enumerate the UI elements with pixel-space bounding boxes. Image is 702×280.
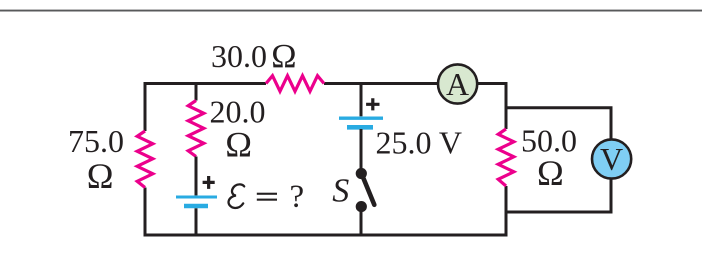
svg-text:S: S: [332, 173, 349, 210]
wire: top wire right segment (ammeter to top-right corner): [478, 82, 506, 85]
svg-text:?: ?: [290, 179, 305, 215]
resistor R1 75.0 ohm (left branch): [137, 131, 153, 188]
battery B1 (emf) short plate: [184, 204, 208, 209]
svg-text:30.0Ω: 30.0Ω: [211, 38, 297, 75]
resistor R4 50.0 ohm (right branch): [498, 129, 514, 186]
switch S lever: [362, 176, 374, 205]
wire: top wire middle segment (30ohm to ammeter): [324, 82, 437, 85]
wire: right branch lower segment: [505, 186, 508, 237]
wire: voltmeter loop top wire: [505, 108, 612, 139]
wire: bottom wire: [145, 234, 506, 237]
svg-text:Ω: Ω: [87, 156, 114, 196]
wire: right branch upper segment: [505, 82, 508, 129]
wire: second branch upper segment (20ohm branch top): [195, 82, 198, 101]
label equals sign: [257, 193, 277, 195]
voltmeter V1 circle: [592, 139, 631, 178]
svg-text:25.0 V: 25.0 V: [376, 125, 463, 161]
wire: voltmeter loop bottom wire: [505, 179, 612, 212]
svg-text:Ω: Ω: [537, 153, 564, 193]
svg-text:75.0: 75.0: [68, 123, 124, 159]
plus sign of battery B2: [366, 98, 379, 110]
wire: middle branch between battery and switch: [360, 129, 363, 169]
label emf script E: [229, 184, 245, 208]
wire: top wire left segment (node between 75ohm and 30ohm): [145, 82, 266, 85]
wire: second branch middle segment (between R2 and battery): [195, 157, 198, 196]
top border rule: [0, 10, 702, 12]
battery B2 25.0V long plate: [339, 116, 383, 119]
svg-text:V: V: [600, 141, 623, 177]
switch S contact dot bottom: [356, 201, 367, 212]
plus sign of battery B1: [203, 176, 215, 189]
wire: left branch lower segment: [144, 188, 147, 237]
svg-text:A: A: [446, 66, 469, 102]
wire: second branch bottom segment: [195, 208, 198, 236]
wire: middle branch top segment (25V branch): [360, 82, 363, 116]
battery B1 (emf) long plate: [176, 196, 217, 199]
svg-text:Ω: Ω: [225, 125, 252, 165]
resistor R2 20.0 ohm (second branch): [188, 101, 204, 157]
wire: left branch upper segment: [144, 82, 147, 131]
ammeter A1 circle: [438, 64, 477, 103]
wire: middle branch bottom segment: [360, 211, 363, 237]
switch S contact dot top: [356, 168, 367, 179]
resistor R3 30.0 ohm (top wire): [266, 76, 324, 92]
battery B2 25.0V short plate: [347, 125, 373, 130]
